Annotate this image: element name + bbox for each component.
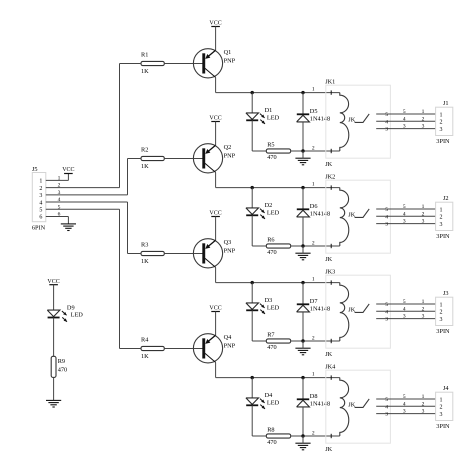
svg-text:J4: J4 bbox=[443, 385, 449, 392]
svg-text:4: 4 bbox=[385, 119, 388, 125]
svg-text:4: 4 bbox=[385, 309, 388, 315]
svg-text:1N4148: 1N4148 bbox=[310, 210, 330, 217]
svg-text:3: 3 bbox=[403, 409, 406, 415]
svg-text:PNP: PNP bbox=[224, 247, 236, 254]
svg-text:1N4148: 1N4148 bbox=[310, 115, 330, 122]
svg-text:3: 3 bbox=[39, 193, 42, 199]
svg-text:1: 1 bbox=[422, 394, 425, 400]
svg-text:R5: R5 bbox=[267, 142, 274, 149]
svg-text:5: 5 bbox=[403, 109, 406, 115]
svg-text:D6: D6 bbox=[310, 203, 318, 210]
svg-text:1: 1 bbox=[312, 277, 315, 283]
svg-text:1K: 1K bbox=[141, 258, 149, 265]
svg-text:VCC: VCC bbox=[209, 305, 221, 311]
svg-text:2: 2 bbox=[422, 306, 425, 312]
svg-text:5: 5 bbox=[403, 204, 406, 210]
svg-text:PNP: PNP bbox=[224, 57, 236, 64]
svg-text:3: 3 bbox=[385, 412, 388, 418]
svg-text:5: 5 bbox=[39, 207, 42, 213]
svg-text:JK: JK bbox=[325, 351, 332, 358]
svg-text:1: 1 bbox=[422, 299, 425, 305]
svg-text:6PIN: 6PIN bbox=[32, 225, 46, 232]
svg-text:1: 1 bbox=[422, 204, 425, 210]
svg-text:1: 1 bbox=[440, 302, 443, 308]
svg-text:R2: R2 bbox=[141, 147, 148, 154]
svg-text:VCC: VCC bbox=[62, 167, 74, 173]
svg-text:1K: 1K bbox=[141, 68, 149, 75]
svg-text:JK: JK bbox=[325, 446, 332, 453]
svg-text:2: 2 bbox=[422, 116, 425, 122]
svg-text:D8: D8 bbox=[310, 393, 318, 400]
svg-text:1: 1 bbox=[39, 179, 42, 185]
svg-text:R3: R3 bbox=[141, 242, 148, 249]
svg-text:VCC: VCC bbox=[209, 210, 221, 216]
svg-text:2: 2 bbox=[312, 430, 315, 436]
svg-text:LED: LED bbox=[267, 304, 280, 311]
svg-text:Q2: Q2 bbox=[224, 144, 232, 151]
svg-text:2: 2 bbox=[422, 401, 425, 407]
svg-text:1: 1 bbox=[312, 182, 315, 188]
svg-text:5: 5 bbox=[385, 112, 388, 118]
svg-text:LED: LED bbox=[71, 312, 84, 319]
svg-text:JK2: JK2 bbox=[325, 173, 335, 180]
svg-text:2: 2 bbox=[440, 310, 443, 316]
svg-text:3: 3 bbox=[422, 124, 425, 130]
svg-text:3: 3 bbox=[385, 222, 388, 228]
svg-text:Q1: Q1 bbox=[224, 49, 232, 56]
svg-text:D4: D4 bbox=[265, 392, 274, 399]
svg-text:D7: D7 bbox=[310, 298, 318, 305]
svg-text:470: 470 bbox=[267, 154, 276, 161]
svg-text:3PIN: 3PIN bbox=[436, 328, 450, 335]
svg-text:2: 2 bbox=[440, 215, 443, 221]
svg-text:2: 2 bbox=[440, 405, 443, 411]
svg-text:LED: LED bbox=[267, 114, 280, 121]
svg-text:4: 4 bbox=[385, 214, 388, 220]
svg-text:470: 470 bbox=[267, 439, 276, 446]
svg-text:3PIN: 3PIN bbox=[436, 138, 450, 145]
svg-text:1: 1 bbox=[312, 87, 315, 93]
svg-text:4: 4 bbox=[39, 200, 42, 206]
svg-text:470: 470 bbox=[267, 249, 276, 256]
svg-text:R7: R7 bbox=[267, 332, 274, 339]
svg-text:1: 1 bbox=[422, 109, 425, 115]
svg-text:PNP: PNP bbox=[224, 342, 236, 349]
svg-text:3PIN: 3PIN bbox=[436, 233, 450, 240]
svg-text:4: 4 bbox=[385, 404, 388, 410]
svg-text:JK: JK bbox=[325, 256, 332, 263]
svg-text:470: 470 bbox=[267, 344, 276, 351]
svg-text:3: 3 bbox=[422, 314, 425, 320]
svg-text:JK4: JK4 bbox=[325, 363, 336, 370]
svg-text:LED: LED bbox=[267, 209, 280, 216]
svg-text:3: 3 bbox=[440, 127, 443, 133]
svg-text:J3: J3 bbox=[443, 290, 449, 297]
svg-text:5: 5 bbox=[403, 394, 406, 400]
svg-text:1: 1 bbox=[440, 207, 443, 213]
svg-text:3: 3 bbox=[403, 124, 406, 130]
svg-text:3: 3 bbox=[440, 412, 443, 418]
svg-text:2: 2 bbox=[422, 211, 425, 217]
svg-text:J2: J2 bbox=[443, 195, 449, 202]
svg-text:JK1: JK1 bbox=[325, 78, 335, 85]
svg-text:D2: D2 bbox=[265, 202, 273, 209]
svg-text:Q3: Q3 bbox=[224, 239, 232, 246]
svg-text:D5: D5 bbox=[310, 108, 318, 115]
svg-text:3: 3 bbox=[440, 317, 443, 323]
svg-text:D1: D1 bbox=[265, 107, 273, 114]
svg-text:Q4: Q4 bbox=[224, 334, 233, 341]
svg-text:VCC: VCC bbox=[209, 115, 221, 121]
svg-text:D3: D3 bbox=[265, 297, 273, 304]
svg-text:5: 5 bbox=[385, 207, 388, 213]
svg-text:1K: 1K bbox=[141, 163, 149, 170]
svg-text:2: 2 bbox=[312, 335, 315, 341]
svg-text:4: 4 bbox=[403, 401, 406, 407]
svg-text:LED: LED bbox=[267, 399, 280, 406]
svg-text:1N4148: 1N4148 bbox=[310, 305, 330, 312]
svg-text:4: 4 bbox=[403, 211, 406, 217]
svg-text:R8: R8 bbox=[267, 427, 274, 434]
svg-text:5: 5 bbox=[385, 302, 388, 308]
svg-text:VCC: VCC bbox=[209, 20, 221, 26]
svg-text:3: 3 bbox=[422, 219, 425, 225]
svg-text:6: 6 bbox=[58, 212, 61, 218]
svg-text:JK3: JK3 bbox=[325, 268, 335, 275]
svg-text:2: 2 bbox=[312, 240, 315, 246]
svg-text:PNP: PNP bbox=[224, 152, 236, 159]
svg-text:JK: JK bbox=[325, 161, 332, 168]
svg-text:R9: R9 bbox=[58, 358, 65, 365]
svg-text:1: 1 bbox=[440, 112, 443, 118]
svg-text:1K: 1K bbox=[141, 353, 149, 360]
svg-text:3: 3 bbox=[385, 317, 388, 323]
svg-text:3: 3 bbox=[403, 219, 406, 225]
svg-text:J5: J5 bbox=[32, 166, 38, 173]
svg-text:5: 5 bbox=[403, 299, 406, 305]
svg-text:3: 3 bbox=[385, 127, 388, 133]
svg-text:R6: R6 bbox=[267, 237, 274, 244]
svg-text:2: 2 bbox=[440, 120, 443, 126]
svg-text:2: 2 bbox=[312, 145, 315, 151]
svg-text:3: 3 bbox=[440, 222, 443, 228]
svg-text:D9: D9 bbox=[67, 304, 75, 311]
svg-text:4: 4 bbox=[403, 306, 406, 312]
svg-text:6: 6 bbox=[39, 215, 42, 221]
svg-text:4: 4 bbox=[403, 116, 406, 122]
svg-text:2: 2 bbox=[39, 186, 42, 192]
svg-text:R4: R4 bbox=[141, 337, 149, 344]
svg-text:1: 1 bbox=[58, 175, 61, 181]
svg-text:1N4148: 1N4148 bbox=[310, 400, 330, 407]
svg-text:J1: J1 bbox=[443, 100, 449, 107]
svg-text:3: 3 bbox=[422, 409, 425, 415]
svg-text:5: 5 bbox=[385, 397, 388, 403]
svg-text:470: 470 bbox=[58, 366, 67, 373]
svg-text:1: 1 bbox=[440, 397, 443, 403]
svg-text:R1: R1 bbox=[141, 52, 148, 59]
svg-text:1: 1 bbox=[312, 372, 315, 378]
svg-text:3: 3 bbox=[403, 314, 406, 320]
svg-text:3PIN: 3PIN bbox=[436, 423, 450, 430]
